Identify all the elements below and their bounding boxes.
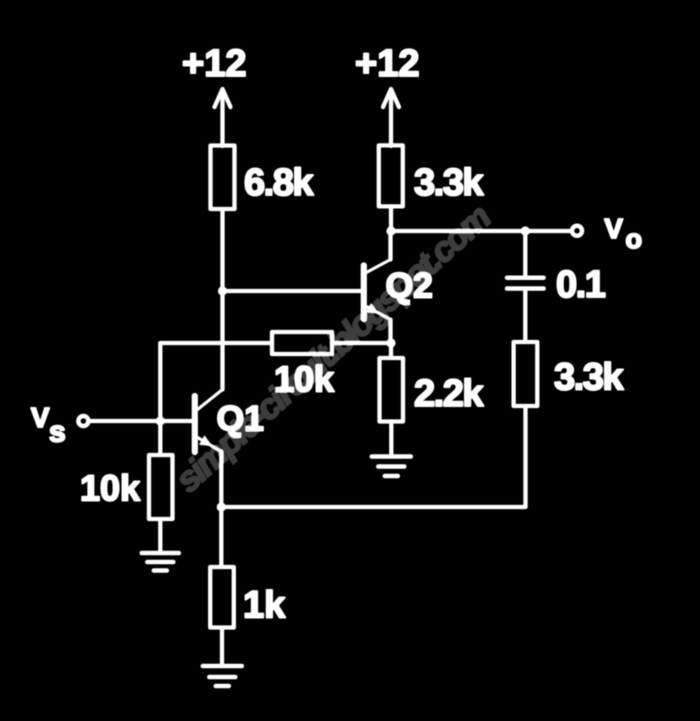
ground under 10k vertical: [142, 553, 179, 571]
junction node D at capacitor: [521, 226, 530, 235]
svg-text:6.8k: 6.8k: [244, 162, 314, 204]
Q2 emitter diagonal: [365, 306, 391, 320]
power arrow +12 right: [389, 90, 393, 146]
wire Q1 collector vertical: [220, 291, 224, 390]
ground under 1k: [203, 666, 242, 686]
wire node A to Q2 base: [223, 289, 362, 293]
svg-text:s: s: [49, 416, 66, 449]
capacitor C1 bottom lead: [523, 291, 527, 343]
resistor R5 10k vertical body: [149, 455, 173, 519]
resistor R2 3.3k body: [379, 145, 403, 206]
wire Q2 emitter node C to 2.2k: [389, 343, 393, 358]
Q2 emitter lead: [388, 320, 392, 344]
Q2 emitter arrow: [366, 303, 380, 314]
wire R4 right to node C: [332, 341, 391, 345]
svg-text:+12: +12: [355, 43, 419, 85]
svg-text:V: V: [605, 213, 624, 244]
Q2 collector diagonal: [365, 260, 391, 274]
svg-text:10k: 10k: [274, 359, 335, 400]
ground under 2.2k: [372, 457, 411, 477]
capacitor C1 plates: [507, 275, 544, 280]
wire R7 to ground: [220, 628, 224, 667]
junction node A: [218, 286, 227, 295]
resistor R6 3.3k right body: [514, 342, 538, 406]
Q2 collector lead: [388, 231, 392, 260]
resistor R7 1k body: [210, 567, 234, 628]
junction node D at Q2 collector: [386, 226, 395, 235]
svg-text:+12: +12: [182, 43, 246, 85]
wire node B down to 10k vertical: [158, 421, 162, 455]
junction node E: [217, 502, 226, 511]
svg-text:V: V: [31, 402, 50, 433]
transistor Q2 base bar: [361, 266, 367, 320]
Q1 emitter arrow: [199, 435, 213, 446]
Q1 emitter diagonal: [198, 438, 222, 452]
svg-text:o: o: [626, 224, 643, 254]
resistor R4 10k horizontal body: [272, 332, 332, 354]
svg-text:1k: 1k: [243, 585, 286, 627]
wire Vs to Q1 base: [91, 419, 192, 423]
resistor R3 2.2k body: [380, 358, 404, 422]
svg-text:Q1: Q1: [217, 399, 264, 439]
wire node D to Vo terminal: [391, 229, 570, 233]
feedback wire R6 bottom to node E: [221, 406, 525, 507]
wire R5 to ground: [158, 519, 162, 553]
wire R3 to ground: [389, 422, 393, 457]
transistor Q1 base bar: [192, 396, 198, 452]
terminal Vs: [78, 416, 88, 426]
terminal Vo: [572, 226, 582, 236]
wire node B up and right to 10k horizontal: [160, 343, 272, 421]
power arrow +12 left: [220, 90, 224, 146]
capacitor C1 top lead: [523, 231, 527, 276]
svg-text:3.3k: 3.3k: [554, 357, 624, 399]
svg-text:10k: 10k: [80, 468, 141, 509]
svg-text:3.3k: 3.3k: [414, 162, 484, 204]
wire R1 bottom to node A: [220, 209, 224, 291]
resistor R1 6.8k body: [211, 146, 235, 210]
junction node B: [156, 416, 165, 425]
wire node E to 1k: [219, 507, 223, 567]
svg-text:0.1: 0.1: [556, 264, 606, 306]
watermark simple-circuit.blogspot.com: [168, 198, 498, 500]
svg-text:2.2k: 2.2k: [414, 373, 484, 415]
Q1 collector diagonal: [198, 390, 223, 410]
junction node C: [386, 338, 395, 347]
Q1 emitter lead: [219, 452, 223, 508]
svg-text:Q2: Q2: [386, 266, 433, 306]
wire R2 bottom to node D: [389, 206, 393, 231]
